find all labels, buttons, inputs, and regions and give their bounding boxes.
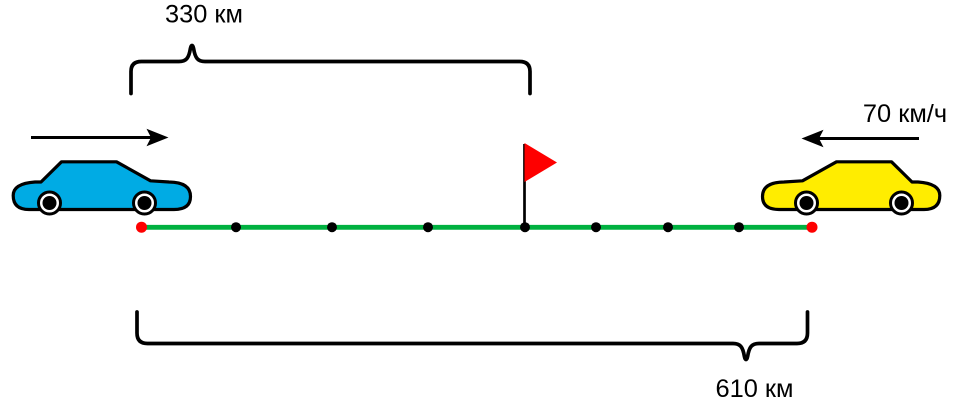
road green line <box>142 225 813 230</box>
arrow left (blue car direction) <box>31 129 169 147</box>
endpoint dot red right <box>807 222 818 233</box>
svg-text:70 км/ч: 70 км/ч <box>863 100 947 128</box>
tick dots black <box>231 222 744 232</box>
flag pole <box>523 144 526 227</box>
flag red <box>525 143 558 182</box>
svg-text:330 км: 330 км <box>165 1 243 29</box>
car yellow (right, mirrored) <box>763 162 940 214</box>
brace bottom (610 km span) <box>137 312 808 360</box>
wheel yellow right <box>891 192 913 214</box>
brace top (330 km span) <box>131 46 530 94</box>
wheel yellow left <box>796 192 818 214</box>
wheel blue front <box>39 192 61 214</box>
car blue (left) <box>13 162 190 214</box>
arrow right (yellow car direction) <box>802 130 920 148</box>
endpoint dot red left <box>136 222 147 233</box>
wheel blue rear <box>134 192 156 214</box>
svg-text:610 км: 610 км <box>716 375 794 403</box>
